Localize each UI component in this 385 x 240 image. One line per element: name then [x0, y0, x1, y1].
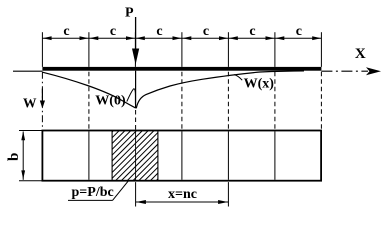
svg-text:p=P/bc: p=P/bc: [72, 185, 114, 200]
svg-text:c: c: [110, 24, 116, 39]
svg-text:P: P: [125, 6, 134, 21]
svg-text:c: c: [63, 24, 69, 39]
svg-text:c: c: [156, 24, 162, 39]
svg-text:c: c: [249, 24, 255, 39]
svg-text:W(0): W(0): [95, 94, 126, 109]
svg-text:c: c: [203, 24, 209, 39]
svg-text:X: X: [355, 46, 366, 62]
svg-text:x=nc: x=nc: [168, 187, 197, 202]
svg-text:W(x): W(x): [244, 77, 275, 92]
svg-text:c: c: [296, 24, 302, 39]
svg-text:W: W: [23, 96, 37, 111]
svg-text:b: b: [6, 153, 22, 161]
